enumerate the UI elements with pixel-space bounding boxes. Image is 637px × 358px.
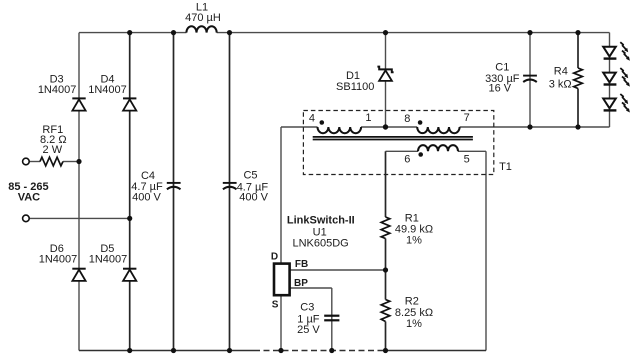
svg-text:400 V: 400 V (239, 192, 268, 204)
svg-text:1%: 1% (406, 318, 422, 330)
svg-text:T1: T1 (499, 161, 512, 173)
svg-text:LNK605DG: LNK605DG (292, 238, 348, 250)
svg-text:C5: C5 (243, 170, 257, 182)
svg-text:470 µH: 470 µH (185, 12, 221, 24)
svg-text:1%: 1% (406, 235, 422, 247)
svg-text:BP: BP (294, 278, 308, 289)
svg-text:5: 5 (464, 154, 470, 166)
svg-text:3 kΩ: 3 kΩ (549, 78, 572, 90)
svg-text:25 V: 25 V (297, 324, 320, 336)
svg-text:1: 1 (365, 112, 371, 124)
svg-text:400 V: 400 V (132, 191, 161, 203)
svg-text:C1: C1 (495, 61, 509, 73)
svg-text:R2: R2 (405, 295, 419, 307)
svg-text:1N4007: 1N4007 (89, 254, 128, 266)
svg-text:2 W: 2 W (43, 144, 63, 156)
svg-text:6: 6 (404, 154, 410, 166)
svg-text:8: 8 (404, 113, 410, 125)
svg-text:SB1100: SB1100 (336, 81, 374, 93)
svg-text:S: S (272, 300, 279, 311)
svg-text:4: 4 (309, 113, 315, 125)
svg-text:LinkSwitch-II: LinkSwitch-II (287, 214, 355, 226)
svg-text:C3: C3 (300, 302, 314, 314)
svg-text:R1: R1 (405, 213, 419, 225)
svg-text:7: 7 (464, 112, 470, 124)
svg-text:VAC: VAC (18, 192, 40, 204)
svg-text:1N4007: 1N4007 (38, 84, 77, 96)
svg-text:16 V: 16 V (488, 83, 511, 95)
svg-text:8.25 kΩ: 8.25 kΩ (395, 307, 433, 319)
svg-text:R4: R4 (554, 66, 568, 78)
svg-text:1N4007: 1N4007 (39, 254, 78, 266)
svg-text:D: D (271, 252, 278, 263)
svg-text:FB: FB (295, 259, 308, 270)
svg-text:1N4007: 1N4007 (88, 84, 127, 96)
